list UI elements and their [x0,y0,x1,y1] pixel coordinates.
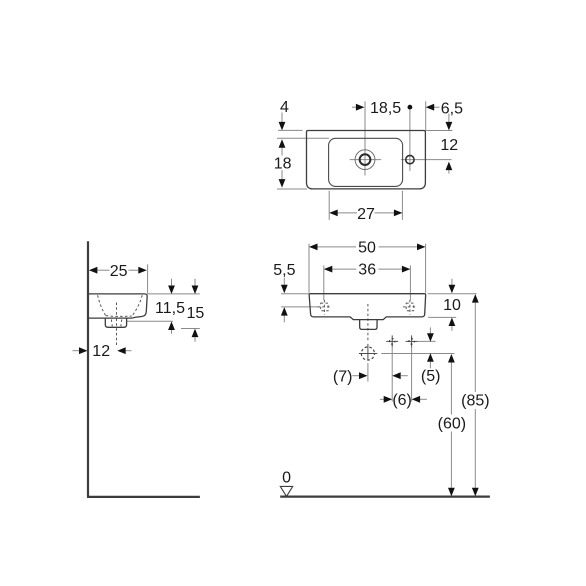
svg-text:25: 25 [110,263,128,280]
svg-text:(7): (7) [333,368,353,385]
svg-text:6,5: 6,5 [441,101,463,118]
svg-text:11,5: 11,5 [155,300,185,317]
svg-text:0: 0 [282,470,291,487]
svg-text:(85): (85) [461,393,489,410]
svg-text:4: 4 [280,99,289,116]
svg-text:(5): (5) [421,368,441,385]
svg-text:18: 18 [274,156,292,173]
svg-text:27: 27 [357,206,375,223]
svg-text:(60): (60) [438,416,466,433]
svg-text:18,5: 18,5 [370,100,401,117]
svg-text:(6): (6) [392,392,412,409]
svg-text:10: 10 [443,297,461,314]
svg-text:15: 15 [187,305,205,322]
svg-text:12: 12 [440,137,458,154]
svg-text:36: 36 [358,262,376,279]
svg-text:12: 12 [92,343,110,360]
svg-text:50: 50 [358,240,376,257]
svg-text:5,5: 5,5 [273,262,295,279]
